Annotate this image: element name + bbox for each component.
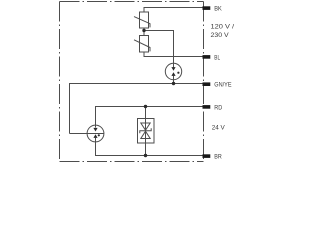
svg-text:GN/YE: GN/YE (214, 81, 232, 88)
svg-text:BR: BR (214, 153, 222, 160)
junction upper GDT / GN-YE net (172, 82, 175, 85)
junction between varistors (142, 29, 145, 32)
wire BL net: varistor stack bottom to terminal (144, 52, 203, 57)
terminal BK (203, 6, 211, 10)
wire between varistors through junction (143, 28, 145, 36)
wire RD net: corner above lower GDT to terminal (96, 107, 204, 126)
wire BK net: terminal to varistor stack top (144, 8, 203, 13)
gas discharge tube (lower, three-electrode) (87, 125, 104, 142)
svg-text:BL: BL (214, 54, 220, 61)
svg-text:230 V: 230 V (211, 32, 230, 39)
varistor (bottom, 120/230 V) (134, 36, 150, 53)
suppressor diode (bidirectional TVS) (138, 119, 155, 144)
svg-text:BK: BK (214, 5, 222, 12)
svg-text:24 V: 24 V (212, 124, 226, 131)
terminal GN/YE (203, 82, 211, 86)
wire TVS lead through suppressor box (145, 107, 147, 156)
terminal BR (203, 154, 211, 158)
svg-text:RD: RD (214, 104, 222, 111)
svg-text:120 V /: 120 V / (211, 23, 235, 30)
junction TVS / BR net (144, 154, 147, 157)
terminal BL (203, 55, 211, 59)
junction TVS / RD net (144, 105, 147, 108)
wire junction branch to upper GDT (144, 31, 174, 64)
device enclosure boundary (dash-dot) (60, 2, 204, 162)
terminal RD (203, 105, 211, 109)
gas discharge tube (upper, isolating spark gap) (165, 63, 181, 79)
wire GN/YE net: left corner to terminal (70, 84, 204, 134)
wire upper GDT bottom to GN/YE net (173, 80, 175, 84)
varistor (top, 120/230 V) (134, 12, 150, 28)
wire GN/YE branch into lower GDT centre electrode (70, 133, 104, 135)
wire BR net: lower GDT bottom to terminal (96, 142, 204, 156)
